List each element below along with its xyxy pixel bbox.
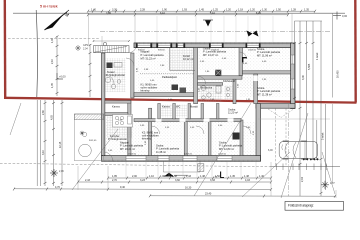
svg-text:MT: 11,38 m²: MT: 11,38 m²: [257, 92, 272, 96]
svg-text:1,08: 1,08: [160, 175, 165, 178]
svg-text:16,455: 16,455: [337, 70, 340, 78]
top dimension chain line 2: [88, 14, 288, 16]
svg-text:2,70: 2,70: [112, 179, 117, 182]
right fence line: [270, 166, 340, 168]
svg-text:1,10: 1,10: [149, 175, 154, 178]
east wall windows: [291, 55, 295, 89]
interior wall v10 below: [240, 120, 243, 156]
svg-text:1,90: 1,90: [162, 9, 167, 12]
porch small circle: [82, 132, 86, 136]
interior wall v7 below: [184, 120, 187, 156]
interior wall h2 right: [243, 71, 291, 74]
svg-text:WC: WC: [176, 105, 180, 109]
extension line x135: [134, 13, 136, 43]
svg-text:90/150: 90/150: [158, 50, 165, 52]
left building chain: [89, 44, 91, 97]
kitchen counter: [113, 115, 133, 128]
svg-text:4,05: 4,05: [51, 115, 54, 120]
bottom chain numbers: [55, 175, 264, 196]
shaft X square: [216, 70, 222, 76]
extension lines below building: [126, 162, 256, 178]
v_mid door gap: [254, 76, 258, 82]
west wall: [102, 53, 105, 156]
survey cross bottom right: [321, 181, 329, 189]
svg-text:2,60: 2,60: [42, 110, 45, 115]
far right boundary vertical lower: [332, 104, 334, 183]
top wall: [134, 43, 292, 48]
dashed line bottom left: [0, 163, 270, 167]
svg-text:3,43: 3,43: [210, 179, 215, 182]
svg-text:1,95: 1,95: [112, 175, 117, 178]
svg-text:5 m-i telek: 5 m-i telek: [40, 4, 58, 8]
red property boundary line: [4, 98, 357, 103]
interior wall v3: [239, 48, 243, 76]
svg-text:11,38 m²: 11,38 m²: [156, 150, 166, 154]
insulation tick row on top wall outer face: [134, 42, 292, 44]
svg-text:1,45: 1,45: [199, 9, 204, 12]
svg-text:P: hidegburkolat: P: hidegburkolat: [106, 73, 125, 77]
svg-text:MT: 13,27 m²: MT: 13,27 m²: [203, 53, 218, 57]
red property boundary right bar: [354, 0, 357, 103]
right chain top ticks: [295, 20, 323, 22]
north arrow: [45, 10, 70, 30]
svg-text:2,28: 2,28: [140, 9, 145, 12]
svg-text:1,20: 1,20: [226, 9, 231, 12]
svg-text:Fürdőszoba: Fürdőszoba: [200, 87, 213, 90]
dash roof overhang line top: [100, 31, 330, 33]
svg-text:1,00: 1,00: [51, 38, 54, 43]
svg-text:6,00: 6,00: [268, 149, 273, 152]
wall stub left below red: [105, 101, 131, 104]
svg-text:MT: 11,96 m²: MT: 11,96 m²: [257, 53, 272, 57]
svg-text:150/150: 150/150: [128, 154, 137, 156]
left dimension chains lower: [44, 100, 46, 186]
entrance arrow: [164, 173, 188, 177]
bottom chain line 3: [14, 188, 271, 191]
interior wall h2 left: [198, 76, 242, 79]
window jambs top wall: [136, 43, 261, 48]
room texts upper: [106, 47, 281, 97]
interior wall h4 kitchen: [105, 113, 128, 116]
entrance doorstep hatch box: [198, 164, 204, 172]
svg-text:1,40: 1,40: [259, 175, 264, 178]
svg-text:4,07: 4,07: [330, 182, 335, 185]
small partitions top band below red: [158, 103, 161, 119]
right chain rotated labels: [301, 52, 325, 182]
bold corner mark SE porch: [221, 172, 224, 178]
svg-text:5,565: 5,565: [308, 63, 311, 70]
far right boundary vertical upper: [332, 13, 334, 98]
east wall: [291, 43, 295, 109]
interior wall bath wc: [233, 79, 236, 103]
svg-text:1,45: 1,45: [230, 175, 235, 178]
svg-text:90/2,05: 90/2,05: [89, 140, 97, 142]
svg-text:6,10: 6,10: [160, 12, 165, 15]
car: [279, 141, 317, 160]
svg-text:1,48: 1,48: [244, 175, 249, 178]
interior wall v1: [131, 53, 134, 98]
svg-text:150/150: 150/150: [248, 50, 257, 52]
carport canopy dashed V: [268, 109, 281, 118]
svg-text:150/150: 150/150: [211, 50, 220, 52]
svg-text:Kamra: Kamra: [162, 105, 170, 109]
door arcs: [105, 52, 251, 161]
interior wall bath top: [198, 83, 223, 86]
porch outline below red: [74, 114, 103, 161]
corridor door gaps: [156, 118, 234, 122]
porch big tree circle: [79, 144, 92, 157]
bottom wall: [102, 156, 261, 162]
interior wall v9 below: [208, 120, 211, 156]
svg-text:MT: 12,80 m²: MT: 12,80 m²: [219, 147, 234, 151]
extension line building left: [88, 13, 90, 45]
svg-text:4,03: 4,03: [245, 179, 250, 182]
interior wall v mid: [254, 74, 258, 104]
tiled floor areas: [170, 49, 195, 71]
svg-text:5,20: 5,20: [256, 12, 261, 15]
chimney bowtie symbol: [247, 31, 259, 37]
svg-text:1,25: 1,25: [213, 9, 218, 12]
svg-text:1,28: 1,28: [291, 9, 296, 12]
svg-text:2,00: 2,00: [132, 175, 137, 178]
diamond tick cluster right: [303, 158, 319, 160]
svg-text:P: Laminált parketta: P: Laminált parketta: [141, 53, 165, 57]
extension line x292: [291, 13, 293, 43]
dotted fold line nappali: [140, 73, 194, 75]
svg-text:120/150: 120/150: [184, 154, 193, 156]
svg-text:P: hidegburkolat: P: hidegburkolat: [108, 137, 127, 141]
bottom chain line 2: [78, 181, 271, 183]
svg-text:3,10: 3,10: [42, 150, 45, 155]
level marker ±0,00: [57, 73, 63, 79]
svg-text:1,30: 1,30: [262, 9, 267, 12]
svg-text:1,35: 1,35: [304, 9, 309, 12]
svg-text:1,43: 1,43: [186, 175, 191, 178]
svg-text:2,04: 2,04: [301, 177, 304, 182]
black corner mark: [242, 57, 247, 62]
room texts lower: [108, 105, 243, 154]
vertical connectors bottom: [77, 166, 79, 190]
svg-text:MT: 20,21 m²: MT: 20,21 m²: [120, 147, 135, 151]
elevation cross top right: [333, 12, 341, 20]
interior micro dimension texts: [108, 50, 267, 156]
svg-text:Földszinti alaprajz: Földszinti alaprajz: [288, 204, 314, 208]
svg-text:Kamra: Kamra: [112, 105, 120, 109]
window extension lines above top wall: [157, 16, 273, 42]
SE step wall horizontal: [256, 104, 295, 109]
interior wall h3 mid: [134, 93, 194, 97]
entrance porch outline: [163, 162, 200, 173]
svg-text:+0,00: +0,00: [59, 75, 66, 79]
svg-text:1,93: 1,93: [182, 9, 187, 12]
svg-text:23,40: 23,40: [205, 193, 212, 196]
svg-text:1,38: 1,38: [172, 175, 177, 178]
bed symbol right: [233, 133, 240, 140]
svg-text:3,60: 3,60: [175, 179, 180, 182]
porch steps hatch strip: [74, 114, 103, 120]
bottom chain ticks: [13, 177, 336, 198]
svg-text:1,48: 1,48: [200, 175, 205, 178]
title box: [285, 202, 344, 211]
right vertical chain lines: [294, 21, 296, 100]
sun survey symbol: [75, 45, 81, 51]
diagonal leader lines: [10, 103, 335, 198]
svg-text:1,40: 1,40: [91, 9, 96, 12]
svg-text:11,20 m²: 11,20 m²: [228, 111, 238, 115]
svg-text:90/150: 90/150: [138, 50, 145, 52]
svg-text:2,06: 2,06: [59, 170, 64, 173]
svg-text:1,50: 1,50: [215, 175, 220, 178]
svg-text:4,10: 4,10: [210, 12, 215, 15]
svg-text:2,43: 2,43: [85, 179, 90, 182]
building: NW terrace stair band: [93, 40, 130, 53]
svg-text:2,04: 2,04: [83, 48, 88, 51]
survey cross bottom left: [50, 169, 58, 177]
svg-text:1,18: 1,18: [238, 9, 243, 12]
bathroom fixtures left: [105, 63, 122, 89]
top dimension chain line 1: [88, 10, 315, 12]
svg-text:12,15: 12,15: [59, 141, 62, 148]
svg-text:16,30: 16,30: [185, 186, 192, 189]
svg-text:4,35: 4,35: [106, 12, 111, 15]
svg-text:10,12 m²: 10,12 m²: [183, 57, 193, 61]
left dimension chain upper: [56, 36, 58, 96]
red property boundary left bar: [4, 0, 7, 98]
svg-text:kémény: kémény: [141, 89, 151, 93]
svg-text:1,50: 1,50: [276, 9, 281, 12]
down arrow symbol top: [203, 20, 213, 27]
interior wall v4 below: [149, 108, 152, 155]
svg-text:3,30: 3,30: [302, 75, 305, 80]
svg-text:2,10: 2,10: [51, 59, 54, 64]
room floor textures: [105, 48, 290, 155]
svg-text:Közlekedő: Közlekedő: [223, 79, 236, 83]
corridor wall h below red: [134, 119, 241, 122]
svg-text:MT: 31,22 m²: MT: 31,22 m²: [141, 57, 156, 61]
site west boundary line: [36, 10, 37, 97]
svg-text:1 telek: 1 telek: [316, 52, 319, 60]
svg-text:Padlásfeljáró: Padlásfeljáró: [162, 75, 178, 79]
svg-text:3,30: 3,30: [112, 9, 117, 12]
interior wall v2: [194, 48, 198, 104]
bathroom fixtures mid: [201, 86, 230, 100]
windows in top wall: [138, 43, 260, 47]
carport slab edge: [258, 118, 330, 120]
NW door arc: [129, 45, 137, 52]
svg-text:5 telek: 5 telek: [322, 132, 325, 140]
porch star mark: [80, 131, 84, 135]
svg-text:4,70: 4,70: [55, 186, 60, 189]
extension line x102: [101, 36, 103, 47]
bottom chain line 4 total: [150, 195, 336, 197]
svg-text:1,35: 1,35: [51, 83, 54, 88]
inner east wall: [256, 104, 261, 162]
svg-text:3,23: 3,23: [140, 179, 145, 182]
site west boundary below red line (double): [36, 100, 38, 186]
svg-text:1,20: 1,20: [250, 9, 255, 12]
dashed neighbour line left: [8, 38, 100, 40]
svg-text:0,00: 0,00: [342, 14, 348, 18]
site top line: [13, 12, 345, 14]
windows in bottom wall: [126, 156, 232, 161]
top chain ticks: [87, 10, 316, 17]
svg-text:Mosdó: Mosdó: [190, 105, 198, 109]
svg-text:kémény: kémény: [142, 137, 152, 141]
svg-text:9,40: 9,40: [120, 186, 125, 189]
dark boiler fixtures: [172, 85, 179, 91]
top chain numbers: [91, 9, 309, 16]
tile area west edge line: [169, 48, 171, 71]
carport dashed lines: [275, 108, 277, 166]
bottom chain line 1: [108, 177, 271, 179]
